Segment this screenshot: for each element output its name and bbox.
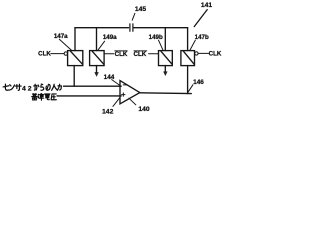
inverting bubble on switch 147a control [64,52,67,55]
switch 149a lever [92,51,103,64]
leader line from 140 to op-amp body [129,98,136,105]
overline of first CLK-bar [115,50,127,52]
wire top rail left segment [75,27,129,29]
svg-text:149a: 149a [103,34,117,41]
svg-text:140: 140 [138,106,150,113]
leader line to capacitor 145 [132,13,135,20]
wire from rail down to switch 147b top [187,28,189,51]
wire reference voltage line to op-amp non-inverting input [57,95,121,97]
minus sign of op-amp [123,84,126,86]
leader line from 147a to its box [59,39,71,50]
wire switch 147b bottom to output node 146 [187,66,189,94]
leader line from 146 to output node [187,85,193,94]
switch 149a box [90,51,105,66]
wire op-amp output [140,92,192,95]
switch 147a lever [71,51,83,64]
arrowhead under 149b [164,72,168,76]
inverting bubble on switch 147b control [195,52,198,55]
node label reference voltage text 基準電圧 [32,94,57,101]
leader line from 147b to its box [190,40,195,50]
svg-text:4: 4 [22,86,26,93]
leader line from 142 to non-inverting input [113,98,120,107]
wire from rail down to switch 149b top [164,28,166,51]
switch 147b lever [184,51,194,64]
wire CLK to bubble of 147a [51,53,64,55]
switch 147a box [68,51,83,66]
svg-text:149b: 149b [149,34,163,41]
wire from rail down to switch 147a top [74,28,76,51]
svg-text:CLK: CLK [38,51,51,58]
switch 149b lever [161,51,172,64]
svg-text:2: 2 [28,86,32,93]
leader line from 149b to its box [159,40,163,50]
wire CLKbar to 149b control [149,53,159,55]
capacitor C145 plates [130,24,133,31]
wire switch 147a bottom to sensor input line [73,66,75,87]
svg-text:145: 145 [135,6,147,13]
node label sensor input text センサ42からの入力 [3,84,21,90]
svg-text:CLK: CLK [115,51,128,58]
leader line from 141 to top rail corner [194,10,207,27]
wire top rail right segment [134,27,188,29]
svg-text:146: 146 [193,79,204,86]
plus sign of op-amp [122,93,125,96]
switch 149b box [159,51,173,66]
svg-text:141: 141 [201,2,213,9]
op-amp 140 triangle [120,81,140,104]
arrowhead under 149a [95,72,99,76]
overline of second CLK-bar [134,50,147,52]
svg-text:142: 142 [102,108,114,115]
leader line from 149a to its box [98,41,105,50]
svg-text:CLK: CLK [209,51,222,58]
wire switch 149b bottom with arrow [164,66,166,72]
wire 149a control to CLKbar [104,53,114,55]
switch 147b box [181,51,195,66]
wire 147b bubble to CLK right [198,52,209,54]
digits 42 of sensor label [22,86,32,93]
svg-text:147a: 147a [54,33,68,40]
svg-text:147b: 147b [195,34,209,41]
wire from rail down to switch 149a top [96,28,98,51]
wire switch 149a bottom with arrow [96,66,98,73]
svg-text:CLK: CLK [134,51,147,58]
leader line from 144 to inverting input [112,80,121,86]
wire sensor input line to op-amp inverting input [64,85,122,87]
